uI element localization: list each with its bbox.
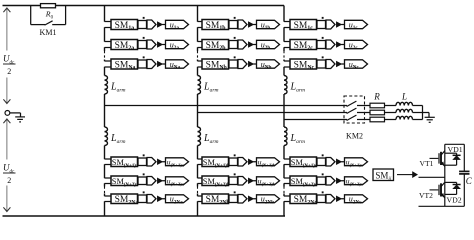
submodule SM2Na phase a: [105, 194, 139, 206]
wire midpoint bus phase b: [197, 94, 199, 127]
signal tag u1b: [253, 20, 279, 31]
gate driver icon SM(N+1)a: [138, 154, 162, 166]
resistor R phase b: [370, 110, 396, 115]
signal tag u(N+2)c: [341, 177, 367, 187]
wire lower arm bus phase a: [104, 146, 106, 217]
signal tag u2Nb: [253, 195, 279, 206]
gate driver icon SM2Na: [138, 191, 162, 203]
signal tag u(N+1)b: [253, 158, 279, 168]
wire SM terminal midpoint: [419, 176, 445, 178]
svg-text:KM1: KM1: [40, 28, 57, 37]
submodule SM2a phase a: [105, 40, 138, 52]
gate driver icon SMNb: [229, 56, 253, 68]
svg-text:VT1: VT1: [420, 159, 434, 168]
voltage arrow Udc/2 lower: [3, 119, 10, 212]
wire bottom DC bus: [3, 215, 286, 217]
inductor Larm upper phase a: [105, 76, 108, 95]
node midpoint O: [5, 111, 10, 116]
gate driver icon SM(N+2)a: [138, 173, 162, 185]
svg-text:2: 2: [7, 67, 11, 76]
inductor Larm upper phase b: [198, 76, 201, 95]
wire main branch: [444, 144, 446, 206]
svg-text:2: 2: [7, 176, 11, 185]
gate driver icon SMNc: [317, 56, 341, 68]
submodule SM2Nb phase b: [198, 194, 230, 206]
svg-text:C: C: [466, 176, 473, 186]
signal tag u(N+2)a: [162, 177, 188, 187]
capacitor C: [459, 144, 469, 206]
wire lower arm bus phase c: [283, 146, 285, 217]
voltage arrow Udc/2 upper: [3, 8, 10, 104]
inductor L phase a: [396, 102, 423, 105]
gate driver icon SM1a: [138, 17, 162, 29]
resistor R0: [41, 4, 56, 8]
arrow SMij to detail: [397, 172, 417, 177]
submodule SM(N+1)a phase a: [105, 157, 139, 169]
gate driver icon SM(N+1)c: [317, 154, 341, 166]
submodule SM(N+2)c phase c: [284, 176, 318, 188]
wire phase c AC tap: [284, 119, 347, 121]
label Udc/2 upper: [3, 54, 16, 77]
wire star to ground: [423, 113, 430, 118]
svg-text:R: R: [373, 92, 380, 102]
inductor Larm lower phase c: [284, 127, 287, 146]
wire midpoint bus phase a: [104, 94, 106, 127]
signal tag u2Na: [162, 195, 188, 206]
submodule box SMij: [373, 169, 394, 182]
submodule SM2Nc phase c: [284, 194, 317, 206]
svg-text:L: L: [401, 92, 407, 102]
wire phase a AC tap: [105, 105, 348, 107]
gate driver icon SMNa: [138, 56, 162, 68]
submodule SM2b phase b: [198, 40, 229, 52]
label Udc/2 lower: [3, 163, 16, 186]
signal tag u1a: [162, 20, 188, 31]
signal tag uNb: [253, 60, 279, 71]
gate driver icon SM(N+2)c: [317, 173, 341, 185]
svg-text:VD2: VD2: [447, 196, 462, 205]
contactor KM2 switch phase a: [347, 101, 370, 106]
resistor R phase c: [370, 117, 396, 122]
submodule SM1a phase a: [105, 20, 138, 32]
gate driver icon SM1c: [317, 17, 341, 29]
wire midpoint bus phase c: [283, 94, 285, 127]
transistor VT2: [430, 182, 445, 198]
signal tag u2b: [253, 40, 279, 51]
wire SM terminal bottom: [419, 205, 465, 207]
inductor L phase b: [396, 109, 423, 112]
signal tag uNa: [162, 60, 188, 71]
gate driver icon SM2c: [317, 37, 341, 49]
gate driver icon SM(N+2)b: [229, 173, 253, 185]
inductor Larm upper phase c: [284, 76, 287, 95]
wire AC star point: [422, 106, 424, 120]
submodule SM(N+2)b phase b: [198, 176, 230, 188]
contactor KM1: [31, 6, 66, 26]
resistor R phase a: [370, 103, 396, 108]
transistor VT1: [430, 151, 445, 167]
wire upper arm bus phase c: [283, 6, 285, 76]
svg-text:VT2: VT2: [419, 191, 433, 200]
svg-text:VD1: VD1: [448, 145, 463, 154]
submodule SMNb phase b: [198, 59, 229, 71]
gate driver icon SM2Nc: [317, 191, 341, 203]
contactor KM2 switch phase b: [347, 108, 370, 113]
signal tag u2a: [162, 40, 188, 51]
contactor KM2 switch phase c: [347, 115, 370, 120]
svg-text:KM2: KM2: [346, 132, 363, 141]
gate driver icon SM(N+1)b: [229, 154, 253, 166]
wire top rail: [445, 143, 465, 145]
wire lower arm bus phase b: [197, 146, 199, 217]
diode VD2: [445, 182, 461, 194]
contactor KM2 dashed box: [344, 96, 365, 123]
signal tag u(N+1)a: [162, 158, 188, 168]
submodule SM1c phase c: [284, 20, 317, 32]
gate driver icon SM2a: [138, 37, 162, 49]
wire upper arm bus phase a: [104, 6, 106, 76]
diode VD1: [445, 153, 461, 165]
wire top DC bus: [3, 5, 285, 7]
inductor Larm lower phase b: [198, 127, 201, 146]
submodule SM1b phase b: [198, 20, 229, 32]
signal tag u(N+2)b: [253, 177, 279, 187]
signal tag u1c: [341, 20, 367, 31]
signal tag uNc: [341, 60, 367, 71]
signal tag u2Nc: [341, 195, 367, 206]
submodule SMNc phase c: [284, 59, 317, 71]
signal tag u2c: [341, 40, 367, 51]
submodule SM2c phase c: [284, 40, 317, 52]
wire upper arm bus phase b: [197, 6, 199, 76]
submodule SM(N+1)c phase c: [284, 157, 318, 169]
gate driver icon SM2Nb: [229, 191, 253, 203]
submodule SM(N+2)a phase a: [105, 176, 139, 188]
submodule SM(N+1)b phase b: [198, 157, 230, 169]
gate driver icon SM1b: [229, 17, 253, 29]
inductor Larm lower phase a: [105, 127, 108, 146]
signal tag u(N+1)c: [341, 158, 367, 168]
wire phase b AC tap: [198, 112, 348, 114]
wire midpoint to ground: [10, 113, 21, 117]
ground right: [425, 117, 435, 122]
inductor L phase c: [396, 116, 423, 119]
submodule SMNa phase a: [105, 59, 138, 71]
gate driver icon SM2b: [229, 37, 253, 49]
ground left: [15, 117, 25, 122]
